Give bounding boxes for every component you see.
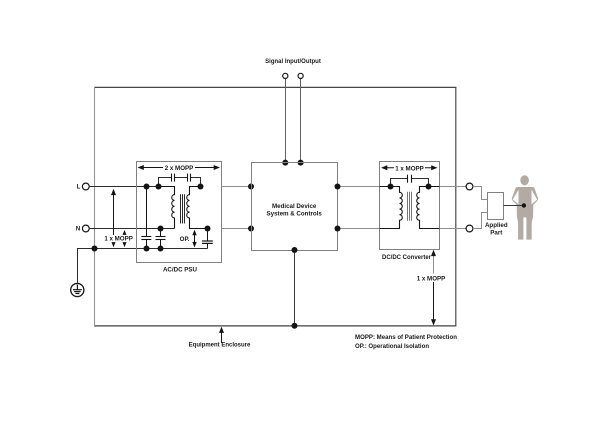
node earth C2 tap — [158, 246, 164, 252]
svg-text:AC/DC PSU: AC/DC PSU — [163, 267, 198, 274]
node L-rail C1 tap — [144, 184, 150, 190]
transformer T1 core — [181, 194, 185, 223]
node medical left top — [248, 184, 254, 190]
node earth C1 tap — [144, 246, 150, 252]
svg-text:OP.: OP. — [180, 236, 190, 243]
svg-text:L: L — [77, 184, 81, 191]
label 1 x MOPP (mains side) — [104, 235, 135, 242]
node DC/DC top left — [388, 184, 394, 190]
wire signal line 2 — [300, 79, 302, 163]
svg-text:Medical Device: Medical Device — [272, 203, 317, 210]
dimension arrow 1xMOPP short (N to earth) — [122, 230, 127, 247]
wire PSU to Medical (bottom) — [222, 228, 252, 230]
label 2 x MOPP — [163, 164, 195, 172]
terminal output 2 — [466, 225, 473, 232]
DC/DC Converter block — [380, 162, 440, 250]
node medical right top — [335, 184, 341, 190]
svg-text:1 x MOPP: 1 x MOPP — [395, 165, 424, 172]
capacitor C3 (OP, secondary to earth) — [202, 229, 213, 249]
svg-text:N: N — [76, 226, 81, 233]
node N-rail C2 tap — [158, 226, 164, 232]
node medical bottom — [292, 247, 298, 253]
ground protective earth symbol — [71, 283, 84, 296]
transformer T2 core — [408, 192, 412, 221]
svg-text:Part: Part — [490, 230, 502, 237]
dimension arrow 1xMOPP long (L to earth) — [111, 189, 116, 247]
patient figure arm gaps — [532, 190, 538, 205]
node medical right bottom — [335, 226, 341, 232]
Applied Part block — [488, 193, 504, 220]
transformer T2 primary winding — [380, 187, 403, 229]
patient figure head — [520, 175, 529, 185]
wire earth rail — [78, 249, 208, 284]
terminal L — [82, 183, 89, 190]
node secondary bottom tap — [205, 226, 211, 232]
svg-text:MOPP: Means of Patient Protect: MOPP: Means of Patient Protection — [355, 334, 457, 341]
node secondary top tap — [198, 184, 204, 190]
label OP. — [179, 235, 191, 243]
svg-text:1 x MOPP: 1 x MOPP — [104, 236, 133, 243]
svg-text:OP.: Operational Isolation: OP.: Operational Isolation — [355, 343, 429, 350]
pointer arrow equipment enclosure — [219, 327, 224, 343]
node earth junction on enclosure — [92, 246, 98, 252]
equipment enclosure — [94, 86, 456, 88]
capacitor C2 (N to earth) — [156, 229, 166, 249]
label 1 x MOPP (DC/DC) — [394, 164, 425, 172]
terminal signal input 2 — [298, 73, 303, 78]
wire L rail — [89, 186, 174, 188]
wire Medical to DC/DC (bottom) — [337, 228, 380, 230]
svg-text:Equipment Enclosure: Equipment Enclosure — [189, 343, 251, 349]
svg-text:2 x MOPP: 2 x MOPP — [165, 165, 194, 172]
capacitor CY1 (bridge, 2xMOPP) — [172, 174, 175, 182]
label 1 x MOPP (patient isolation) — [416, 274, 447, 282]
svg-text:Signal Input/Output: Signal Input/Output — [265, 59, 321, 65]
wire N rail — [89, 228, 174, 230]
svg-text:DC/DC Converter: DC/DC Converter — [382, 255, 432, 261]
wire output 1 to applied part — [473, 187, 488, 200]
dimension arrow 2xMOPP — [138, 165, 221, 170]
node signal junction 1 — [282, 160, 288, 166]
wire DC/DC bridge capacitor branch — [391, 179, 429, 187]
wire applied part to patient — [504, 205, 524, 207]
wire PSU to Medical (top) — [222, 186, 252, 188]
wire DC/DC to output terminal (top) — [440, 186, 467, 188]
terminal N — [82, 225, 89, 232]
node patient connection — [522, 203, 526, 207]
transformer T2 secondary winding — [417, 187, 440, 229]
transformer T1 primary winding — [158, 187, 175, 229]
wire DC/DC to output terminal (bottom) — [440, 228, 467, 230]
node DC/DC top right — [426, 184, 432, 190]
node medical left bottom — [248, 226, 254, 232]
dimension arrow 1xMOPP (DC/DC to enclosure) — [431, 250, 436, 326]
node signal junction 2 — [298, 160, 304, 166]
terminal output 1 — [466, 183, 473, 190]
capacitor CY2 (bridge, 2xMOPP) — [188, 174, 191, 182]
wire Medical to DC/DC (top) — [337, 186, 380, 188]
node L-rail primary tap — [156, 184, 162, 190]
patient figure body — [512, 187, 539, 240]
Medical Device block — [252, 163, 338, 251]
node enclosure bottom junction — [292, 323, 298, 329]
wire signal line 1 — [285, 79, 287, 163]
terminal signal input 1 — [283, 73, 288, 78]
wire medical to enclosure bottom — [294, 250, 296, 326]
wire output 2 to applied part — [473, 213, 488, 229]
svg-text:System & Controls: System & Controls — [267, 211, 323, 218]
svg-text:Applied: Applied — [485, 222, 508, 229]
dimension arrow OP (secondary to earth) — [192, 230, 196, 248]
AC/DC PSU block — [137, 162, 222, 263]
capacitor C1 (L to earth) — [141, 187, 151, 249]
wire bridge capacitors branch — [159, 178, 201, 187]
dimension arrow 1xMOPP (DC/DC) — [381, 165, 438, 170]
capacitor C4 (DC/DC bridge) — [408, 175, 412, 183]
svg-text:1 x MOPP: 1 x MOPP — [417, 275, 446, 282]
transformer T1 secondary winding — [187, 187, 208, 229]
